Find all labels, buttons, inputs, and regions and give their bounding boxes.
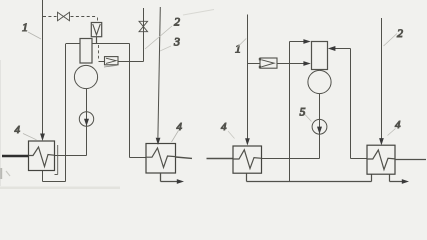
- coil zigzag: [146, 148, 176, 168]
- wire: down corner to HX2 inlet: [130, 44, 147, 158]
- arrow into heat exchanger 4' (right): [379, 138, 384, 145]
- top line from vessel to down-corner: [92, 43, 130, 45]
- control valve feed line: [99, 61, 144, 63]
- scan double edge right of HX1: [55, 145, 58, 175]
- scan smudges: [0, 60, 1, 186]
- arrow into heat exchanger 4 (left): [40, 134, 45, 142]
- HX2 bottom drain with arrow: [161, 173, 178, 182]
- pipe 1' (product line): [247, 15, 249, 139]
- leader for label 5: [305, 115, 312, 122]
- svg-text:2: 2: [397, 26, 403, 40]
- pump 5 (left, circle with down arrow): [79, 112, 93, 126]
- line with arrow into vessel: [277, 63, 304, 65]
- coil zigzag: [28, 147, 54, 167]
- arrow into heat exchanger 4' (left): [245, 138, 250, 145]
- control valve (box with arrow): [105, 57, 119, 65]
- wire pump down then left into HX1': [262, 134, 320, 159]
- leader for label 1: [28, 32, 41, 39]
- tank circle (right): [308, 70, 331, 93]
- coil zigzag: [367, 150, 395, 170]
- svg-text:1: 1: [22, 20, 28, 34]
- leader for label 2: [145, 26, 172, 49]
- expansion vessel (left): [80, 39, 92, 64]
- leader for label 2': [384, 34, 398, 47]
- loop left vertical wire: [65, 44, 67, 182]
- vessel overflow wire: top right, down, into HX2': [335, 49, 367, 159]
- scan artifacts bottom: [0, 187, 120, 190]
- heat exchanger 4 (right box): [146, 144, 176, 174]
- heat exchanger 4' (left box): [233, 146, 262, 173]
- bottom U wire from HX1 outlet: [43, 171, 66, 182]
- pipe 2' (water line): [381, 18, 383, 139]
- dashed impulse line (right of valve): [71, 17, 98, 23]
- wire tank to pump: [86, 89, 88, 113]
- inlet line from left (dangling): [207, 158, 234, 160]
- outlet line to the right: [176, 157, 193, 158]
- leader for label 4: [172, 131, 179, 143]
- leader for label 4': [388, 129, 396, 136]
- leader for label 4': [228, 131, 235, 139]
- leader for label 1': [238, 39, 247, 48]
- wire tank to pump: [319, 94, 321, 120]
- svg-text:5: 5: [300, 105, 306, 119]
- pipe 1 (product line, vertical left): [42, 0, 44, 134]
- return line with arrow into vessel top: [290, 41, 304, 43]
- coil zigzag: [233, 150, 262, 169]
- pressure regulator (box with V): [91, 23, 101, 37]
- wire pump down then left into HX: [54, 126, 87, 156]
- outlet line to right edge: [395, 159, 426, 161]
- check valve (box with arrow): [260, 58, 277, 68]
- loop return vertical wire: [289, 42, 291, 182]
- heat exchanger 4 (left box): [29, 141, 55, 171]
- tap line from pipe 1': [248, 63, 261, 65]
- tank circle (left): [74, 65, 97, 88]
- bottom wire from HX1' across to HX2': [247, 173, 372, 181]
- manual valve on impulse line (bowtie): [58, 12, 70, 21]
- svg-text:3: 3: [173, 35, 180, 49]
- svg-text:4: 4: [15, 124, 21, 136]
- leader for label 3: [160, 46, 171, 51]
- svg-text:4: 4: [177, 121, 183, 133]
- pipe 2 (water supply with shut-off valve): [143, 8, 145, 62]
- product outlet line (thick, to left edge): [2, 155, 29, 158]
- pipe 3 (water line into HX2 top): [158, 7, 160, 138]
- expansion vessel (right): [312, 42, 328, 70]
- top line from loop corner to expansion vessel: [66, 43, 80, 45]
- dashed link regulator to control valve: [98, 45, 100, 59]
- svg-text:4: 4: [395, 119, 401, 131]
- regulator stem: [96, 37, 98, 44]
- svg-text:4: 4: [221, 121, 227, 133]
- leader for label 4: [23, 134, 37, 140]
- scan streak: [183, 10, 214, 16]
- svg-text:2: 2: [174, 15, 180, 29]
- HX2' bottom drain with arrow: [390, 174, 403, 181]
- dashed impulse line (left of valve): [43, 16, 57, 18]
- heat exchanger 4' (right box): [367, 145, 395, 174]
- arrow into heat exchanger 4 (right): [156, 138, 161, 145]
- svg-text:1: 1: [235, 42, 241, 56]
- shut-off valve (vertical bowtie) on pipe 2: [139, 21, 148, 31]
- pump 5 (right, circle with down arrow): [312, 119, 327, 134]
